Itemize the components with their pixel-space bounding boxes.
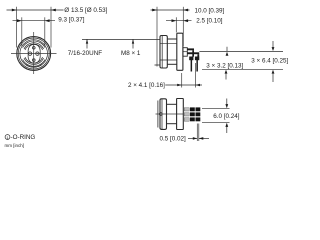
dimension 6.0 vertical line bottom segment [226, 127, 228, 134]
dimension 9.3 extension line right [44, 17, 46, 46]
bottom view o-ring face line [157, 101, 159, 128]
dimension 2x4.1 extension line 2 [195, 63, 197, 88]
svg-text:9.3 [0.37]: 9.3 [0.37] [58, 17, 85, 24]
svg-text:3 × 3.2 [0.13]: 3 × 3.2 [0.13] [206, 62, 243, 69]
middle view pin 2 solder head [195, 57, 199, 61]
middle view 7/16 thread section bottom [167, 63, 177, 65]
dimension 2.5 line left segment [166, 20, 192, 22]
front view bottom socket [33, 59, 36, 62]
dimension 9.3 left arrow [17, 19, 22, 22]
front view left socket [28, 52, 31, 55]
svg-text:10.0 [0.39]: 10.0 [0.39] [195, 7, 225, 14]
svg-text:7/16-20UNF: 7/16-20UNF [68, 50, 102, 57]
svg-text:6.0 [0.24]: 6.0 [0.24] [213, 113, 240, 120]
dimension 9.3 right arrow [45, 19, 50, 22]
front view thread arc bottom 3 [25, 57, 43, 63]
dimension 6.0 vertical line top segment [226, 99, 228, 105]
middle view pin 2 bend [197, 54, 199, 57]
bottom view insulator blocks [184, 108, 189, 122]
front view vertical centerline [33, 32, 35, 74]
dimension 6.0 bottom extension [202, 122, 230, 124]
dimension 0.5 extension line 2 [198, 124, 200, 142]
dimension 3x6.4 top arrow [272, 41, 274, 48]
bottom view contact blocks [190, 107, 200, 121]
dimension 0.5 extension line 1 [196, 124, 198, 142]
dimension 6.0 top extension [202, 107, 230, 109]
pin reference line top [199, 50, 283, 52]
svg-text:mm [inch]: mm [inch] [5, 143, 25, 148]
dimension 0.5 line left segment [188, 137, 197, 139]
bottom view mid section top line [167, 103, 177, 105]
middle view pin 1 bend [192, 50, 194, 56]
dimension 0.5 line right segment [199, 137, 209, 139]
dimension Ø13.5 extension line right [50, 7, 52, 48]
middle view flange [177, 33, 183, 70]
svg-text:Ø 13.5 [Ø 0.53]: Ø 13.5 [Ø 0.53] [64, 7, 107, 14]
dimension Ø13.5 line [7, 9, 64, 11]
bottom view o-ring marker circle [159, 113, 162, 116]
front view horizontal centerline [11, 53, 57, 55]
bottom view centerline [156, 113, 184, 115]
front view thread arc top 1 [23, 41, 45, 48]
middle view collar chamfer line [161, 36, 163, 68]
middle view pin 1 tail [191, 60, 193, 72]
dimension 3x3.2 top arrow [226, 47, 228, 52]
dimension 10.0 right arrow [183, 9, 188, 12]
front view thread arc bottom 2 [24, 58, 44, 64]
front view thread arc top 2 [24, 43, 44, 49]
front view thread arc top 3 [25, 44, 43, 50]
pin reference line bottom [202, 68, 283, 70]
svg-text:3 × 6.4 [0.25]: 3 × 6.4 [0.25] [251, 57, 288, 64]
middle view insulator mid line [183, 51, 187, 53]
dimension 2x4.1 line [165, 84, 202, 86]
dimension 10.0 left arrow [152, 9, 157, 12]
middle view pin 2 horizontal [187, 52, 199, 54]
middle view collar face tick [155, 64, 160, 66]
front view insert outline [28, 45, 40, 64]
middle view extension line x157 [156, 7, 158, 67]
dimension Ø13.5 extension line left [16, 7, 18, 48]
svg-text:-O-RING: -O-RING [11, 134, 36, 141]
middle view 7/16 thread section top [167, 38, 177, 40]
thread leader horizontal line [82, 38, 160, 40]
dimension 9.3 line [13, 20, 56, 22]
svg-text:M8 × 1: M8 × 1 [121, 50, 141, 57]
front view right socket [36, 52, 39, 55]
dimension Ø13.5 left arrow [12, 9, 17, 12]
middle view insulator stub [183, 48, 187, 57]
dimension 9.3 extension line left [21, 17, 23, 46]
front view ring circle 2 [18, 38, 49, 69]
dimension 2.5 extension left [175, 17, 177, 32]
svg-text:0.5 [0.02]: 0.5 [0.02] [160, 136, 187, 143]
front view thread arc bottom 1 [23, 60, 45, 67]
svg-text:2 × 4.1 [0.16]: 2 × 4.1 [0.16] [128, 82, 165, 89]
dimension 3x3.2 bottom arrow [225, 70, 228, 74]
front view top socket [33, 47, 36, 50]
front view outer circle (Ø13.5 collar) [17, 37, 51, 71]
o-ring legend balloon [5, 135, 10, 140]
dimension 3x6.4 bottom arrow [272, 70, 275, 74]
middle view collar body [160, 36, 167, 69]
middle view pin 1 horizontal [187, 48, 194, 50]
middle view pin 1 solder head [189, 57, 193, 61]
dimension 2.5 line right segment [183, 19, 188, 22]
dimension 10.0 line [151, 9, 190, 11]
M8x1 leader arrow [132, 39, 134, 48]
bottom view mid section bottom line [167, 123, 177, 125]
front view ring circle 3 [20, 40, 48, 68]
bottom view flange [177, 99, 184, 130]
middle view pin 2 tail [196, 60, 198, 72]
bottom view collar [160, 99, 167, 130]
7/16-20UNF leader arrow [86, 39, 88, 48]
dimension 10.0 extension right [182, 7, 184, 46]
front view thread arc bottom 4 [26, 65, 41, 67]
bottom view collar chamfer line [161, 99, 163, 129]
dimension 2x4.1 extension line 1 [181, 73, 183, 88]
dimension Ø13.5 right arrow [51, 9, 56, 12]
svg-text:2.5 [0.10]: 2.5 [0.10] [196, 17, 223, 24]
